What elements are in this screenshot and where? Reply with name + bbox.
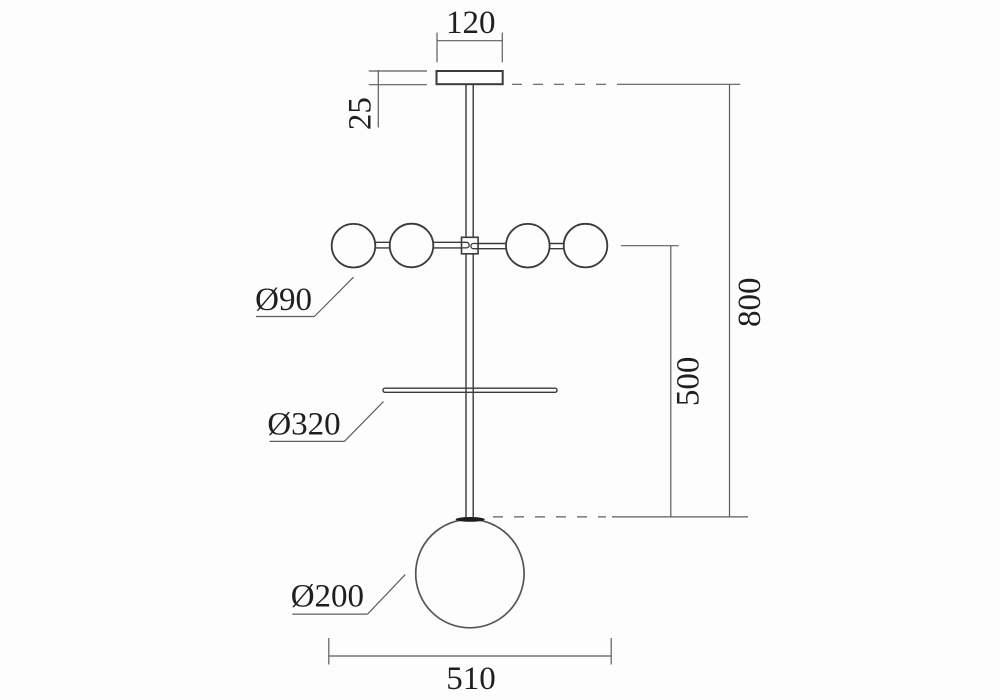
sphere 1	[332, 224, 376, 268]
big sphere Ø200	[416, 519, 524, 627]
dim 510 right tick	[610, 638, 612, 665]
sphere 3	[506, 224, 550, 268]
svg-text:25: 25	[342, 97, 378, 130]
sphere 2	[390, 224, 434, 268]
dim 120 left tick	[436, 33, 438, 63]
label Ø90 underline	[256, 316, 314, 318]
dashed ceiling line	[512, 83, 621, 85]
dim 25 bottom extension line	[369, 84, 427, 86]
left arm tube bottom line	[354, 247, 462, 249]
dim 120 right tick	[501, 33, 503, 63]
sphere 4	[564, 224, 608, 268]
dashed sphere-top line	[493, 516, 606, 518]
dim 500 vertical line	[670, 246, 672, 517]
dim 510 left tick	[328, 638, 330, 665]
svg-text:Ø200: Ø200	[291, 579, 364, 615]
connector left tube capsule end	[462, 242, 470, 248]
label Ø320 underline	[270, 440, 345, 442]
svg-text:500: 500	[670, 357, 706, 407]
label Ø320 leader	[344, 402, 383, 442]
dim 120 line	[437, 40, 502, 42]
dim 25 top extension line	[369, 70, 427, 72]
rod right line	[472, 84, 474, 517]
label Ø90 leader	[314, 277, 353, 316]
left arm tube top line	[354, 241, 462, 243]
right arm tube bottom line	[478, 248, 586, 250]
svg-text:Ø320: Ø320	[267, 406, 340, 442]
disc Ø320	[383, 388, 557, 392]
dim 25 vertical line	[377, 70, 379, 128]
dim 510 line	[329, 655, 611, 657]
ceiling plate	[437, 71, 503, 84]
svg-text:510: 510	[446, 661, 496, 697]
connector right tube capsule end	[471, 244, 478, 249]
rod left line	[465, 84, 467, 517]
label Ø200 leader	[368, 575, 406, 615]
dim 800 vertical line	[729, 84, 731, 517]
solid sphere-top line to 800 dim	[612, 516, 748, 518]
dim 500 top tick	[621, 245, 679, 247]
label Ø200 underline	[292, 613, 367, 615]
svg-text:Ø90: Ø90	[255, 282, 312, 318]
svg-text:800: 800	[732, 278, 768, 328]
right arm tube top line	[478, 243, 586, 245]
svg-text:120: 120	[446, 5, 496, 41]
central connector	[462, 237, 479, 254]
solid ceiling line to 800 dim	[621, 83, 740, 85]
socket cap	[456, 517, 485, 522]
